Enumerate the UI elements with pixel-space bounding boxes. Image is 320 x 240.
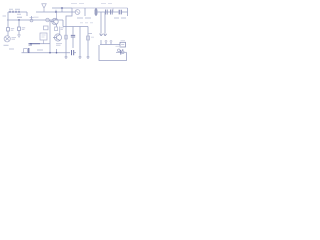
wire top rail <box>52 7 72 9</box>
crystal X1 bars <box>106 10 113 15</box>
wire rail y26.5 <box>63 26 88 28</box>
wire main rail y20 <box>7 19 63 21</box>
wire rail y44.5 right <box>100 44 120 46</box>
resistor R3 <box>44 26 49 30</box>
antenna <box>42 4 46 12</box>
capacitor C4 <box>71 35 75 37</box>
wire after C6 <box>74 52 76 54</box>
label top mid <box>77 17 91 19</box>
junction dot <box>49 52 51 54</box>
label R2 <box>22 28 25 30</box>
wire Q1 collector <box>56 12 58 19</box>
junction dot <box>55 11 57 13</box>
label above battery <box>121 40 126 42</box>
resistor R5 <box>55 27 58 31</box>
wire rail y52.5 <box>22 52 71 54</box>
transistor Q1 <box>51 18 59 24</box>
terminal pins <box>10 11 19 13</box>
headphone hooks <box>100 34 107 36</box>
IC box U1 <box>40 33 47 40</box>
label right of Q2 <box>56 44 62 46</box>
node blob <box>30 17 34 19</box>
wire top-left terminal row <box>8 11 27 13</box>
wire x73 drop <box>72 27 74 35</box>
label left <box>3 15 7 17</box>
resistor R6 <box>65 35 68 39</box>
label above jack <box>116 45 121 47</box>
microphone M1 <box>7 31 9 36</box>
wire left drop <box>7 12 9 20</box>
jack J1 <box>116 49 127 55</box>
wire drop x72 <box>66 8 72 27</box>
label below terminals <box>17 13 21 15</box>
wire x50 drop <box>49 20 51 53</box>
resistor R4 on x88 <box>87 36 90 40</box>
resistor R1 <box>7 20 9 28</box>
pin stubs <box>106 42 111 45</box>
ground G1 <box>18 31 20 36</box>
wire x88 drop <box>87 27 89 58</box>
capacitor C3 <box>46 18 50 22</box>
capacitor C2 <box>119 10 121 15</box>
junction dot <box>56 52 58 54</box>
wire U1 to rail <box>43 40 45 44</box>
label above rail <box>17 16 22 18</box>
wire corner right of terminals <box>26 12 28 16</box>
label top right <box>114 17 126 19</box>
capacitor C trim <box>75 10 80 15</box>
wire cap to edge <box>121 11 127 13</box>
wire riser x56 <box>55 10 57 12</box>
wire drop x80 <box>79 27 81 58</box>
label top margin 2 <box>101 3 112 5</box>
label above C5 <box>37 49 43 51</box>
wire top rail faint <box>72 7 128 9</box>
battery box B1 <box>120 42 126 47</box>
label bottom left <box>9 48 14 50</box>
wire bottom right loop <box>99 45 127 61</box>
wire x31 drop <box>31 16 33 20</box>
wire drop x66 <box>65 27 67 58</box>
wire antenna feed <box>36 11 76 13</box>
headphone wires <box>101 12 105 34</box>
resistor R2 <box>18 20 20 27</box>
capacitor C6 series <box>72 50 74 55</box>
wire below C4 <box>72 37 74 48</box>
label right <box>61 28 64 30</box>
coil L1 <box>95 8 98 15</box>
wire rail y43.7 <box>30 43 40 45</box>
junction dot <box>18 19 20 21</box>
transistor Q2 <box>53 34 62 41</box>
wire x101 stub <box>100 40 102 45</box>
label top mid row2 <box>80 22 93 24</box>
wire Q2 collector <box>59 27 61 35</box>
label R1 <box>11 29 14 31</box>
wire riser x113 <box>112 8 114 12</box>
label m <box>29 44 33 46</box>
wire right edge drop <box>127 8 129 16</box>
wire riser x62 <box>61 8 63 12</box>
label mic <box>12 38 17 40</box>
label mid rail <box>34 16 39 18</box>
label above terminals <box>9 8 20 10</box>
wire drop x85 <box>84 8 86 16</box>
junction dot <box>61 7 63 9</box>
wire x63 drop <box>62 20 64 27</box>
label top margin 1 <box>71 3 84 5</box>
end ticks <box>65 57 90 58</box>
wire mid top right <box>97 11 119 13</box>
capacitor C5 electrolytic <box>24 48 29 53</box>
node circle <box>30 19 33 22</box>
wire stub x56.5 <box>56 49 58 53</box>
wire Q1 emitter <box>56 24 58 27</box>
